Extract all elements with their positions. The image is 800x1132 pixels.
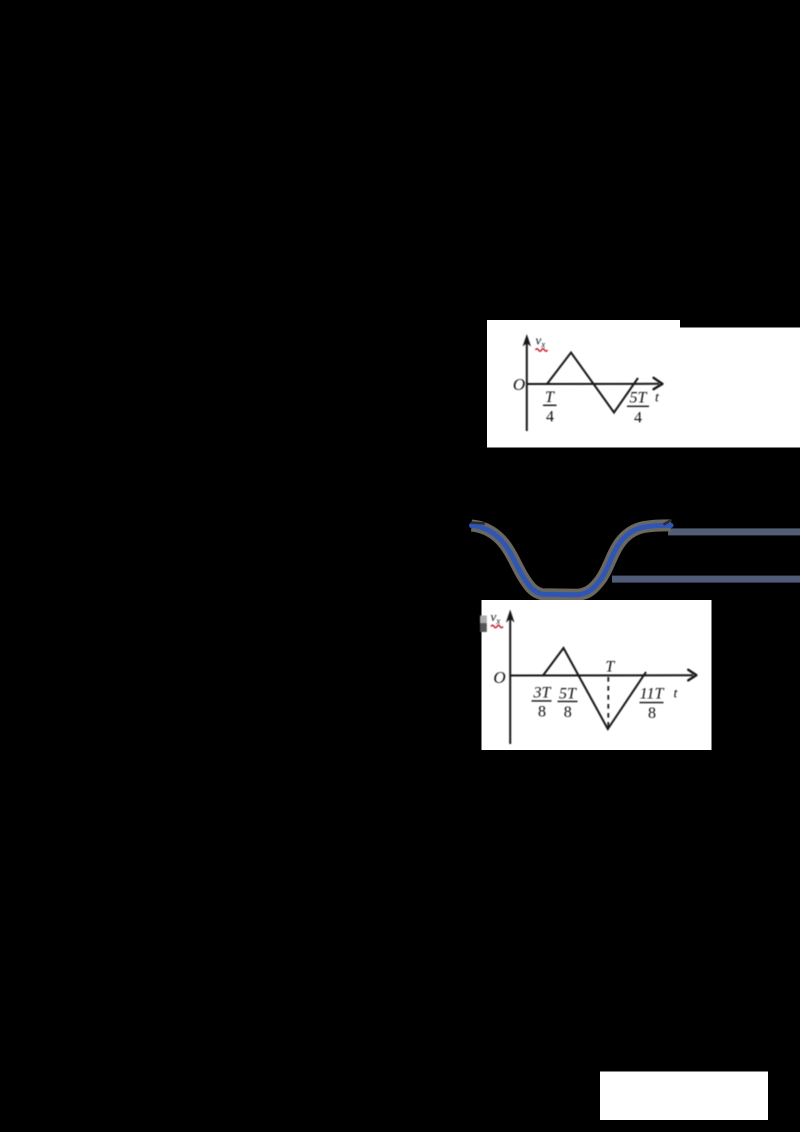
black notch top-right of panel 1 (680, 320, 800, 328)
graph2 triangle wave (543, 648, 646, 729)
graph2 11T/8 fraction bar (640, 702, 664, 704)
svg-text:O: O (513, 375, 525, 394)
graph2 t-axis arrowhead (688, 670, 696, 681)
graph2 5T/8 fraction bar (558, 700, 578, 702)
graph1 T/4 fraction bar (543, 404, 557, 406)
blue curve (472, 525, 672, 594)
graph1 v-axis arrowhead (523, 334, 531, 347)
white panel 1 (top graph) (487, 320, 800, 448)
svg-text:4: 4 (546, 409, 554, 426)
svg-text:8: 8 (538, 704, 546, 721)
white panel 2 (bottom graph) (482, 600, 712, 750)
graph2 v-axis arrowhead (506, 610, 515, 623)
graph1 t-axis arrowhead (654, 378, 663, 389)
slate band B (right of curve) (612, 576, 800, 583)
graph2 grey square mark (480, 616, 487, 624)
white panel 3 (bottom right, empty) (600, 1072, 768, 1121)
svg-text:4: 4 (634, 410, 642, 427)
graph2 t-axis (510, 674, 693, 676)
graph1 triangle wave (547, 353, 638, 413)
graph1 v-axis (526, 343, 528, 431)
svg-text:5T: 5T (559, 686, 577, 703)
svg-text:O: O (493, 668, 505, 687)
dark tick at curve left end (471, 523, 485, 524)
slate band A (right of curve) (668, 528, 800, 535)
graph2 v-axis (509, 618, 511, 744)
graph2 dashed drop line at T (607, 677, 609, 728)
svg-text:8: 8 (648, 705, 656, 722)
svg-text:8: 8 (564, 704, 572, 721)
svg-text:3T: 3T (533, 685, 552, 702)
svg-text:5T: 5T (630, 390, 648, 407)
dark tick at curve right end (664, 520, 672, 525)
graph2 red squiggle under v_x (491, 625, 503, 628)
graph1 t-axis (526, 383, 659, 385)
svg-text:11T: 11T (640, 686, 665, 703)
grey halo under blue curve (472, 525, 672, 594)
svg-text:T: T (605, 659, 615, 676)
graph1 5T/4 fraction bar (627, 405, 649, 407)
svg-text:T: T (545, 389, 555, 406)
graph2 3T/8 fraction bar (532, 700, 552, 702)
graph1 red squiggle under v_x (536, 349, 548, 352)
